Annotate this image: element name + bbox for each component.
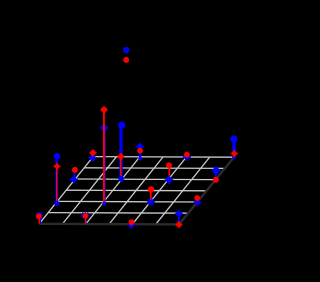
stem cluster C6 right edge j=4 [212,166,221,183]
mesh row line j=6 [93,156,233,159]
stem cluster C12 left edge j=2 [53,153,60,206]
mesh row line j=3 [66,189,206,192]
stem cluster C13 tall interior (2,2) [100,106,109,205]
isolated red marker [123,57,129,63]
stem cluster C15 interior (4,4) [165,162,174,184]
stem cluster C16 interior (4,2) [147,186,155,205]
mesh row line j=2 [57,200,197,203]
mesh column line i=5 [156,157,210,224]
mesh column line i=0 [39,157,93,224]
stem cluster C1 at W corner [36,212,44,224]
stem cluster C11 left edge j=4 [70,167,78,184]
stem cluster C3 front edge i=4 [127,219,135,229]
stem cluster C14 tall interior (2,4) [118,122,126,182]
stem cluster C10 at N corner [88,149,96,162]
mesh column line i=2 [86,157,140,224]
mesh row line j=4 [75,178,215,181]
stem cluster C5 right edge j=2 [194,195,202,206]
stem cluster C7 at E corner [230,135,238,159]
stem cluster C9 top edge i=4 [183,152,191,161]
stem cluster C2 front edge i=2 [81,212,89,225]
isolated blue marker (clipped top) [123,47,129,53]
mesh column line i=1 [63,157,117,224]
stem cluster C4 at S corner [175,210,183,228]
mesh row line j=1 [48,212,188,215]
mesh row line j=5 [84,167,224,170]
stem cluster C8 top edge i=2 [136,143,144,161]
mesh column line i=3 [109,157,163,224]
x-axis dark front edge [39,223,179,226]
y-axis dark right edge [179,156,235,224]
mesh column line i=4 [132,157,186,224]
